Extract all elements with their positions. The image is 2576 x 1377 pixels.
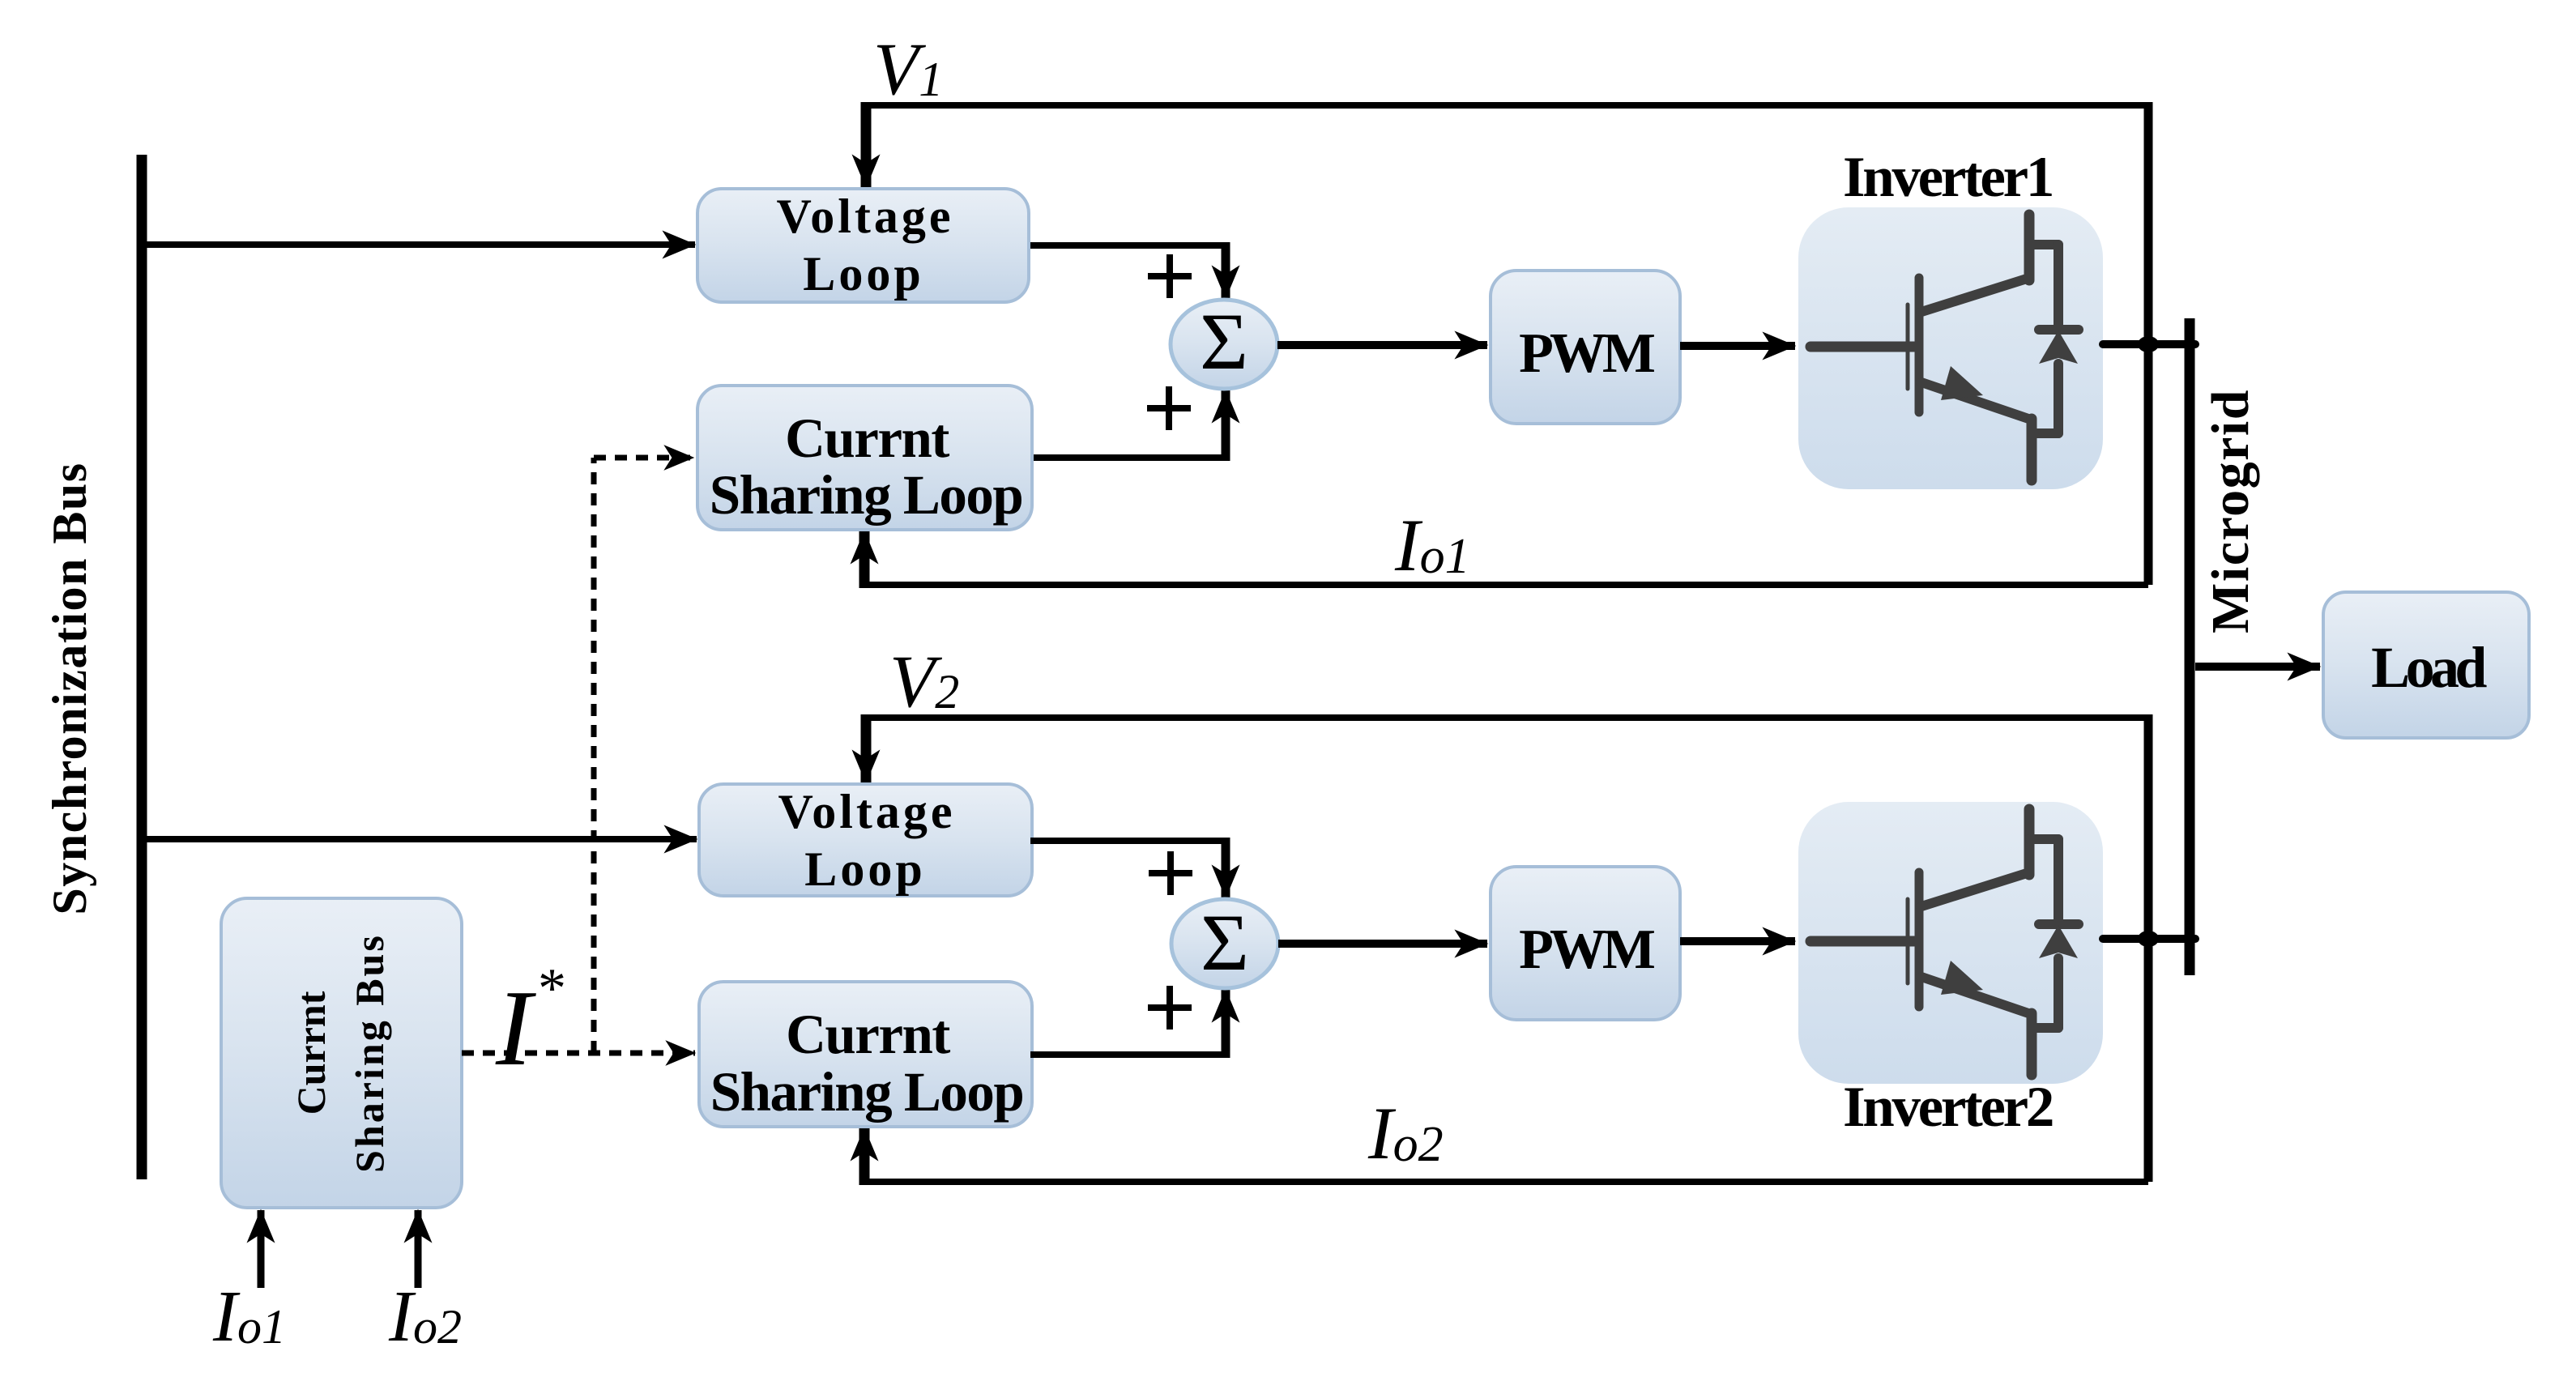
svg-text:PWM: PWM xyxy=(1519,919,1655,981)
wire: Voltage Loop 2 to summer 2 xyxy=(1030,838,1226,844)
wire: PWM 2 to Inverter 2 xyxy=(1680,937,1795,945)
svg-text:Σ: Σ xyxy=(1200,296,1248,386)
svg-text:Inverter2: Inverter2 xyxy=(1843,1076,2053,1139)
svg-text:Loop: Loop xyxy=(803,247,923,301)
Inverter 2 box xyxy=(1798,802,2103,1084)
wire: V1 feedback horizontal xyxy=(866,102,2148,109)
wire: microgrid bus arrow to Load xyxy=(2195,663,2320,671)
svg-text:*: * xyxy=(538,957,566,1020)
svg-text:Σ: Σ xyxy=(1201,897,1249,987)
svg-text:Currnt: Currnt xyxy=(288,991,334,1115)
node plus sign (V input, summer 2) xyxy=(1149,851,1192,895)
node Microgrid label xyxy=(2201,389,2260,633)
wire: dashed I* horizontal to Currnt Sharing Loop 2 xyxy=(462,1051,695,1056)
wire: Io1 feedback horizontal xyxy=(864,582,2148,588)
svg-text:Sharing Loop: Sharing Loop xyxy=(710,464,1023,526)
wire: Io2 feedback arrow up into Currnt Sharing Loop 2 xyxy=(859,1128,870,1185)
wire: Inverter 1 output to microgrid bus xyxy=(2103,340,2195,348)
wire: sync bus branch to Voltage Loop 2 xyxy=(142,836,697,842)
svg-text:Synchronization Bus: Synchronization Bus xyxy=(43,462,96,914)
Inverter 1 box xyxy=(1798,207,2103,489)
svg-text:Load: Load xyxy=(2371,635,2487,700)
node plus sign (V input, summer 1) xyxy=(1148,254,1192,298)
Voltage Loop 1 box xyxy=(697,189,1029,302)
wire: Currnt Sharing Loop 1 to summer xyxy=(1030,454,1226,461)
svg-text:Sharing Loop: Sharing Loop xyxy=(710,1061,1024,1123)
wire: V2 feedback horizontal xyxy=(866,714,2148,721)
wire: PWM 1 to Inverter 1 xyxy=(1680,342,1795,350)
wire: right feedback vertical (V2/Io2) xyxy=(2144,714,2153,1182)
wire: right feedback vertical (V1/Io1) xyxy=(2144,102,2153,585)
transistor IGBT symbol inverter 1 xyxy=(1810,215,2079,480)
svg-text:Microgrid: Microgrid xyxy=(2201,389,2260,633)
transistor IGBT symbol inverter 2 xyxy=(1810,809,2079,1075)
wire: summer 1 to PWM 1 xyxy=(1277,341,1487,349)
Load box xyxy=(2323,592,2529,738)
wire: V1 feedback drop arrow into Voltage Loop 1 xyxy=(861,102,872,187)
wire: microgrid bus vertical xyxy=(2185,318,2195,975)
op-amp summer 2 (sigma) xyxy=(1171,899,1278,988)
wire: dashed I* horizontal to Currnt Sharing Loop 1 xyxy=(594,455,693,461)
PWM 2 box xyxy=(1491,867,1680,1020)
svg-text:Inverter1: Inverter1 xyxy=(1843,146,2052,209)
wire: Io2 feedback horizontal xyxy=(864,1179,2148,1185)
wire: Io2 arrow into Currnt Sharing Bus xyxy=(415,1210,422,1288)
Currnt Sharing Loop 1 box xyxy=(697,386,1032,530)
Voltage Loop 2 box xyxy=(699,784,1032,896)
svg-text:Loop: Loop xyxy=(804,842,925,896)
svg-text:I: I xyxy=(495,968,536,1088)
wire: Io1 feedback arrow up into Currnt Sharing Loop 1 xyxy=(859,531,870,588)
PWM 1 box xyxy=(1491,271,1680,424)
svg-text:Currnt: Currnt xyxy=(785,407,949,469)
wire: summer 2 to PWM 2 xyxy=(1278,940,1487,948)
node Synchronization Bus label xyxy=(43,462,96,914)
node junction dot 1 xyxy=(2138,336,2159,352)
svg-text:Voltage: Voltage xyxy=(778,785,955,838)
Currnt Sharing Bus box xyxy=(221,898,462,1208)
svg-text:PWM: PWM xyxy=(1519,322,1655,385)
wire: Voltage Loop 1 to summer xyxy=(1027,242,1226,249)
node plus sign (I input, summer 2) xyxy=(1148,986,1192,1030)
wire: dashed I* vertical riser xyxy=(591,458,597,1053)
node junction dot 2 xyxy=(2138,931,2159,947)
wire: Io1 arrow into Currnt Sharing Bus xyxy=(258,1210,265,1288)
wire: sync bus branch to Voltage Loop 1 xyxy=(142,241,695,248)
op-amp summer 1 (sigma) xyxy=(1171,300,1277,389)
wire: Inverter 2 output to microgrid bus xyxy=(2103,935,2195,943)
node plus sign (I input, summer 1) xyxy=(1147,386,1191,430)
Currnt Sharing Loop 2 box xyxy=(699,982,1032,1127)
svg-text:Voltage: Voltage xyxy=(776,190,953,243)
wire: Currnt Sharing Loop 2 to summer 2 xyxy=(1030,1051,1226,1058)
wire: V2 feedback drop arrow into Voltage Loop 2 xyxy=(861,714,872,782)
wire: synchronization bus vertical line xyxy=(137,155,147,1179)
svg-text:Sharing Bus: Sharing Bus xyxy=(347,933,392,1173)
svg-text:Currnt: Currnt xyxy=(786,1004,950,1065)
